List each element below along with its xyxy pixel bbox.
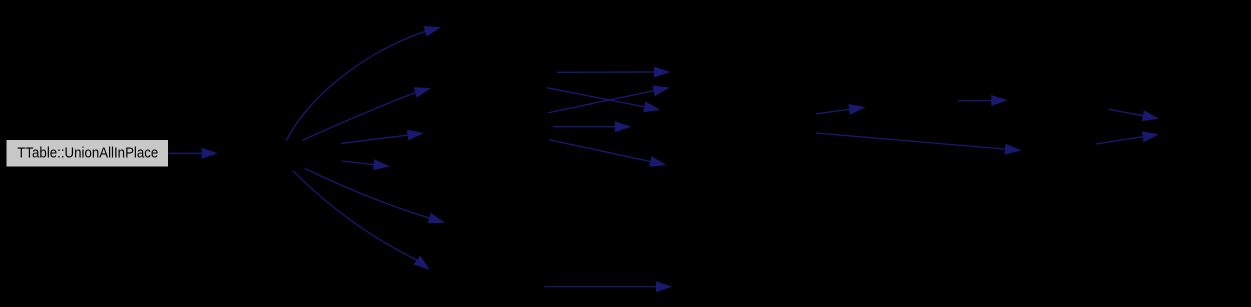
wire edge F1 — [1109, 109, 1143, 115]
wire edge M6 bottom horizontal — [545, 286, 656, 288]
wire edge M4 — [553, 126, 615, 128]
wire edge M5 — [549, 140, 650, 162]
wire edge E2 — [302, 93, 415, 141]
wire edge M2 — [547, 88, 644, 107]
arrowhead E1 — [424, 26, 441, 37]
arrowhead M4 — [615, 121, 632, 132]
arrowhead E6 — [414, 256, 431, 270]
arrowhead E0 — [202, 148, 219, 159]
arrowhead M2 — [643, 101, 660, 112]
arrowhead F2 — [1142, 131, 1159, 142]
wire edge R3 long diagonal — [816, 133, 1005, 149]
wire edge R2 — [958, 100, 991, 102]
wire edge E4 — [342, 161, 374, 165]
arrowhead R1 — [848, 104, 865, 115]
arrowhead M1 — [654, 67, 671, 78]
arrowhead E3 — [407, 130, 424, 141]
arrowhead M3 — [653, 86, 670, 97]
arrowhead E2 — [414, 87, 431, 98]
arrowhead E4 — [373, 159, 390, 170]
arrowhead F1 — [1142, 110, 1159, 121]
wire edge M3 — [548, 91, 653, 113]
wire edge F2 — [1096, 137, 1143, 144]
svg-text:TTable::UnionAllInPlace: TTable::UnionAllInPlace — [17, 145, 158, 161]
wire edge E3 — [341, 135, 408, 143]
wire edge E1 fan-out top curve — [286, 31, 425, 141]
arrowhead E5 — [428, 213, 445, 224]
arrowhead M5 — [649, 156, 666, 167]
arrowhead R3 — [1005, 144, 1022, 155]
arrowhead R2 — [991, 95, 1008, 106]
wire edge E5 — [305, 169, 429, 219]
node box TTable::UnionAllInPlace — [7, 140, 169, 167]
arrowhead M6 — [656, 281, 673, 292]
wire edge M1 — [557, 71, 654, 73]
node label TTable::UnionAllInPlace — [17, 145, 158, 161]
wire edge R1 — [816, 109, 849, 113]
wire edge E6 fan-out bottom curve — [293, 171, 417, 260]
wire edge E0 from TTable::UnionAllInPlace — [169, 152, 202, 154]
